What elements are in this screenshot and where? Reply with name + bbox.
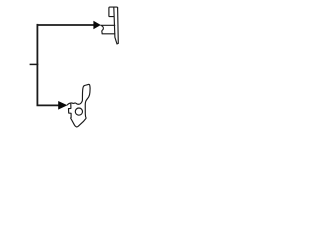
arrowhead top bbox=[93, 21, 100, 29]
outline of part B bbox=[67, 84, 90, 127]
strip left wall of part A bbox=[114, 7, 117, 44]
wire: top horizontal leader to arrow bbox=[37, 24, 95, 26]
wire: bottom horizontal leader to arrow bbox=[37, 104, 60, 106]
strip right wall of part A bbox=[117, 8, 118, 44]
arrowhead bottom bbox=[58, 101, 67, 110]
hook loop of part A bbox=[109, 7, 118, 17]
part A: top clip (strip with folded hook) bbox=[101, 7, 118, 44]
tab of part A with wavy left edge bbox=[101, 25, 115, 34]
hole circle of part B bbox=[75, 108, 82, 115]
wire: left stub tick bbox=[30, 63, 39, 65]
part B: bottom bracket plate bbox=[67, 84, 90, 127]
wire: vertical leader line bbox=[36, 24, 38, 106]
